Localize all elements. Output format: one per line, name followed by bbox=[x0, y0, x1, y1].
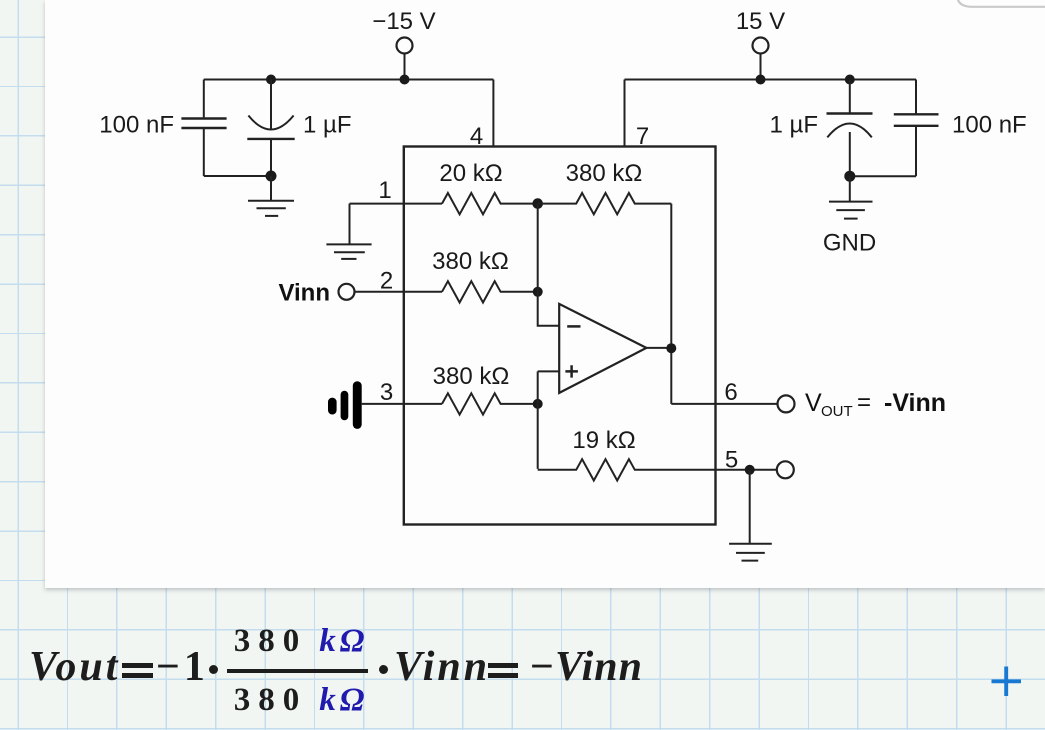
formula equals 2 bbox=[488, 663, 518, 668]
formula Vout bbox=[29, 643, 120, 691]
capacitor C 1uF right (polarized) bbox=[827, 80, 873, 177]
capacitor C 100nF left bbox=[181, 80, 226, 177]
svg-text:380 kΩ: 380 kΩ bbox=[566, 160, 643, 187]
fraction denominator 380 kOhm bbox=[232, 682, 370, 719]
svg-text:=: = bbox=[857, 389, 871, 416]
op-amp U1 triangle bbox=[559, 304, 646, 393]
svg-text:15 V: 15 V bbox=[736, 8, 785, 35]
ground right caps bbox=[829, 176, 873, 218]
svg-text:2: 2 bbox=[380, 268, 393, 295]
junction dot right caps bottom bbox=[844, 171, 855, 182]
terminal circle pin 6 bbox=[778, 395, 795, 412]
junction dot inverting node bbox=[532, 198, 543, 209]
wire pin 4 drop bbox=[492, 80, 494, 147]
svg-text:GND: GND bbox=[823, 230, 876, 257]
svg-text:100 nF: 100 nF bbox=[952, 112, 1027, 139]
blue plus cursor bbox=[988, 663, 1025, 700]
svg-text:1 µF: 1 µF bbox=[303, 112, 352, 139]
junction dot pin2 node bbox=[533, 287, 543, 297]
wire -15V stub bbox=[404, 54, 406, 80]
resistor 380k input2 bbox=[442, 281, 538, 302]
svg-text:4: 4 bbox=[470, 123, 483, 150]
capacitor C 1uF left (polarized) bbox=[247, 80, 294, 177]
junction dot left caps bottom bbox=[266, 171, 277, 182]
svg-text:V: V bbox=[805, 389, 822, 417]
svg-text:7: 7 bbox=[636, 123, 649, 150]
terminal circle -15V bbox=[397, 38, 413, 54]
junction dot noninverting node bbox=[533, 399, 543, 409]
svg-text:6: 6 bbox=[724, 379, 737, 406]
svg-text:380 kΩ: 380 kΩ bbox=[433, 363, 510, 390]
wire pin 1 bbox=[350, 203, 443, 205]
wire noninverting input bbox=[538, 371, 559, 469]
svg-text:OUT: OUT bbox=[821, 403, 853, 420]
svg-text:20 kΩ: 20 kΩ bbox=[439, 160, 502, 187]
wire pin 6 bbox=[671, 403, 777, 405]
wire pin 2 bbox=[355, 291, 443, 293]
fraction bar bbox=[227, 669, 368, 672]
wire op-amp output bbox=[646, 347, 671, 349]
junction dot left rail / 1uF bbox=[266, 75, 276, 85]
terminal circle pin 5 bbox=[777, 461, 794, 478]
toolbar corner top right bbox=[945, 0, 1045, 14]
svg-text:5: 5 bbox=[725, 447, 738, 474]
wire inverting input bbox=[538, 204, 559, 326]
formula dot 1 bbox=[209, 665, 219, 675]
resistor 380k feedback bbox=[538, 193, 672, 214]
wire 15V stub bbox=[760, 54, 762, 80]
terminal circle 15V bbox=[753, 38, 769, 54]
svg-text:380 kΩ: 380 kΩ bbox=[432, 248, 509, 275]
wire pin 3 bbox=[362, 403, 442, 405]
op-amp plus sign bbox=[565, 365, 578, 377]
wire left caps bottom bbox=[204, 175, 271, 177]
formula Vinn bbox=[394, 643, 490, 691]
resistor 20k bbox=[442, 193, 538, 214]
formula minus 1 bbox=[156, 643, 209, 691]
wire left supply rail bbox=[204, 79, 494, 81]
wire feedback vertical bbox=[670, 204, 672, 404]
svg-text:19 kΩ: 19 kΩ bbox=[572, 427, 635, 454]
junction dot right rail / 1uF bbox=[845, 75, 855, 85]
svg-text:1 µF: 1 µF bbox=[769, 112, 818, 139]
svg-text:100 nF: 100 nF bbox=[99, 112, 174, 139]
IC U1 body bbox=[404, 147, 716, 525]
junction dot left rail / supply bbox=[400, 75, 410, 85]
svg-text:Vinn: Vinn bbox=[278, 280, 330, 307]
op-amp minus sign bbox=[567, 325, 580, 328]
ground left caps bbox=[248, 176, 294, 216]
formula dot 2 bbox=[379, 665, 389, 675]
capacitor C 100nF right bbox=[894, 80, 939, 177]
wire right caps bottom bbox=[850, 175, 916, 177]
svg-text:-Vinn: -Vinn bbox=[884, 389, 946, 417]
svg-text:1: 1 bbox=[378, 177, 391, 204]
signal source icon pin 3 bbox=[328, 381, 362, 429]
junction dot pin 5 bbox=[745, 465, 755, 475]
wire pin 7 drop bbox=[624, 80, 626, 147]
formula minus Vinn bbox=[530, 643, 643, 691]
junction dot output bbox=[666, 343, 676, 353]
formula equals 1 bbox=[122, 663, 152, 668]
fraction numerator 380 kOhm bbox=[232, 623, 370, 660]
svg-text:−15 V: −15 V bbox=[372, 8, 435, 35]
svg-text:3: 3 bbox=[380, 379, 393, 406]
ground pin 1 bbox=[326, 204, 371, 259]
label VOUT = -Vinn bbox=[805, 389, 946, 420]
junction dot right rail / supply bbox=[756, 75, 766, 85]
wire right supply rail bbox=[625, 79, 917, 81]
terminal circle pin 2 bbox=[339, 284, 355, 300]
resistor 380k input3 bbox=[442, 393, 538, 414]
resistor 19k bbox=[538, 459, 777, 480]
white canvas panel bbox=[45, 0, 1045, 588]
ground pin 5 bbox=[729, 470, 772, 561]
